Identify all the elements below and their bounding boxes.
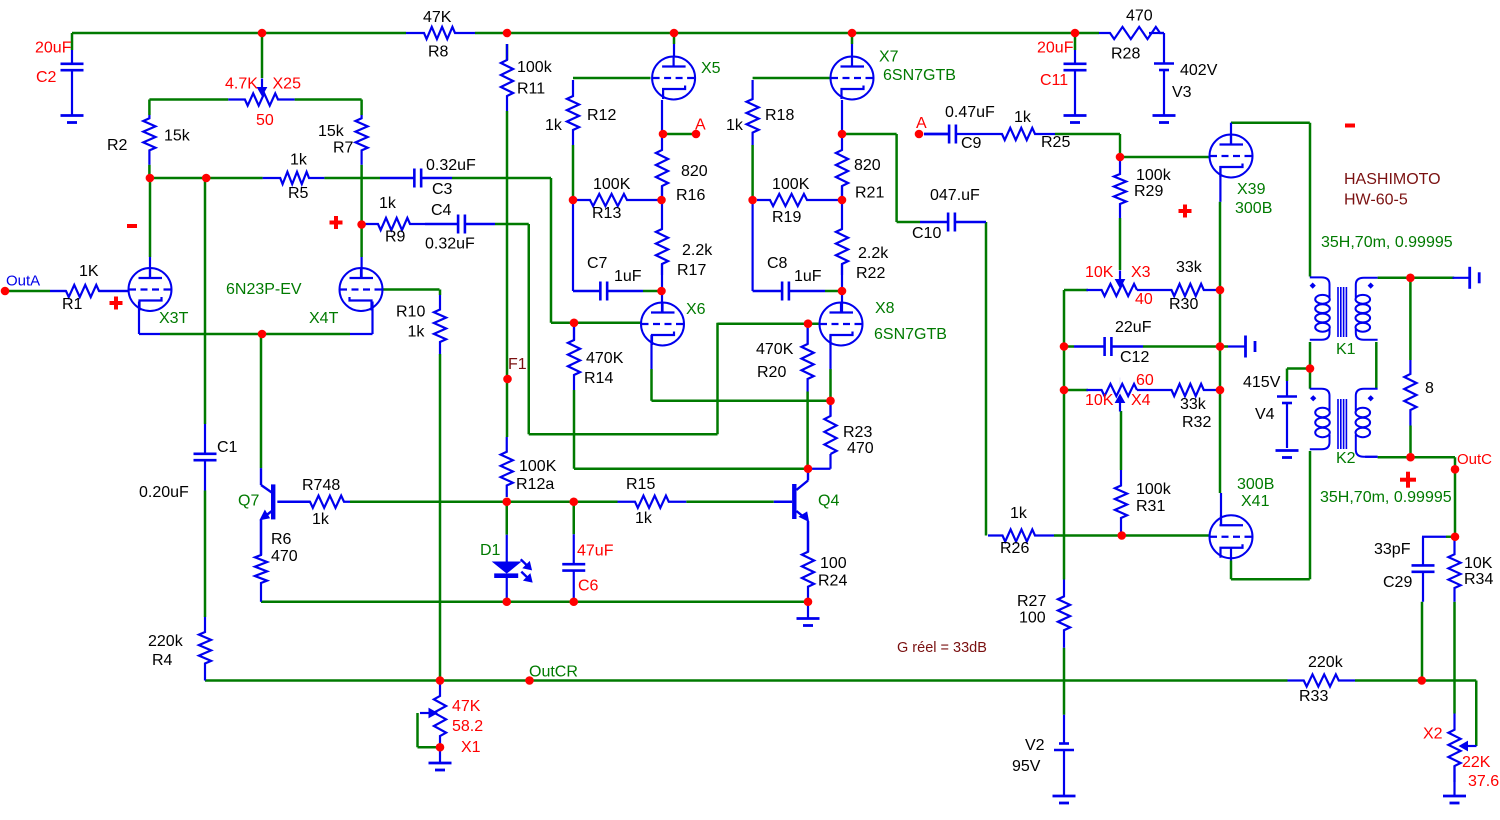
svg-text:2.2k: 2.2k <box>858 245 889 262</box>
svg-text:50: 50 <box>256 112 274 129</box>
svg-text:R27: R27 <box>1017 593 1046 610</box>
svg-text:V3: V3 <box>1172 84 1192 101</box>
svg-text:X41: X41 <box>1241 493 1270 510</box>
svg-text:0.20uF: 0.20uF <box>139 484 189 501</box>
svg-text:47K: 47K <box>423 9 452 26</box>
svg-text:100k: 100k <box>1136 481 1172 498</box>
svg-text:1k: 1k <box>408 324 426 341</box>
svg-text:C2: C2 <box>36 69 57 86</box>
svg-text:6SN7GTB: 6SN7GTB <box>874 326 947 343</box>
svg-text:R7: R7 <box>333 140 354 157</box>
svg-text:47K: 47K <box>452 698 481 715</box>
svg-text:C3: C3 <box>432 181 453 198</box>
svg-text:C6: C6 <box>578 578 599 595</box>
svg-text:X3: X3 <box>1131 264 1151 281</box>
svg-text:X5: X5 <box>701 60 721 77</box>
svg-text:R22: R22 <box>856 265 885 282</box>
svg-text:95V: 95V <box>1012 758 1041 775</box>
svg-text:8: 8 <box>1425 380 1434 397</box>
svg-text:R9: R9 <box>385 229 406 246</box>
svg-text:V4: V4 <box>1255 406 1275 423</box>
svg-text:R17: R17 <box>677 262 706 279</box>
svg-text:C10: C10 <box>912 225 941 242</box>
svg-text:37.6: 37.6 <box>1468 773 1499 790</box>
svg-text:Q7: Q7 <box>238 493 259 510</box>
svg-text:6SN7GTB: 6SN7GTB <box>883 67 956 84</box>
svg-text:R2: R2 <box>107 137 128 154</box>
svg-text:1k: 1k <box>379 195 397 212</box>
svg-text:6N23P-EV: 6N23P-EV <box>226 281 302 298</box>
svg-text:R13: R13 <box>592 205 621 222</box>
svg-text:33k: 33k <box>1180 396 1207 413</box>
svg-text:R10: R10 <box>396 304 425 321</box>
svg-text:Q4: Q4 <box>818 493 839 510</box>
svg-text:R16: R16 <box>676 187 705 204</box>
svg-text:F1: F1 <box>508 356 527 373</box>
svg-text:15k: 15k <box>164 128 191 145</box>
svg-text:OutCR: OutCR <box>529 663 578 680</box>
svg-text:X1: X1 <box>461 739 481 756</box>
svg-text:10K: 10K <box>1464 555 1493 572</box>
svg-text:R8: R8 <box>428 44 449 61</box>
svg-text:300B: 300B <box>1235 200 1272 217</box>
svg-text:R15: R15 <box>626 476 655 493</box>
svg-text:C11: C11 <box>1040 72 1068 89</box>
svg-text:100K: 100K <box>772 176 810 193</box>
svg-text:22uF: 22uF <box>1115 319 1152 336</box>
svg-text:R24: R24 <box>818 573 847 590</box>
svg-text:R748: R748 <box>302 477 340 494</box>
svg-text:A: A <box>916 115 927 132</box>
svg-text:R1: R1 <box>62 296 83 313</box>
svg-text:C1: C1 <box>217 439 238 456</box>
svg-text:R30: R30 <box>1169 296 1198 313</box>
svg-text:470K: 470K <box>756 341 794 358</box>
svg-text:R18: R18 <box>765 107 794 124</box>
svg-text:1uF: 1uF <box>614 268 642 285</box>
svg-text:X25: X25 <box>273 76 302 93</box>
svg-text:R12a: R12a <box>516 476 554 493</box>
svg-text:1k: 1k <box>1014 109 1032 126</box>
svg-text:220k: 220k <box>1308 654 1344 671</box>
svg-text:58.2: 58.2 <box>452 718 483 735</box>
svg-text:R21: R21 <box>855 185 884 202</box>
svg-text:415V: 415V <box>1243 374 1281 391</box>
svg-text:D1: D1 <box>480 542 501 559</box>
svg-text:820: 820 <box>681 163 708 180</box>
svg-text:1k: 1k <box>1010 505 1028 522</box>
svg-text:C8: C8 <box>767 255 788 272</box>
svg-text:33pF: 33pF <box>1374 541 1411 558</box>
svg-text:100k: 100k <box>517 59 553 76</box>
svg-text:1k: 1k <box>635 510 653 527</box>
svg-text:100K: 100K <box>519 458 557 475</box>
svg-text:402V: 402V <box>1180 62 1218 79</box>
svg-text:100k: 100k <box>1136 167 1172 184</box>
svg-text:X4T: X4T <box>309 310 339 327</box>
svg-text:100: 100 <box>820 555 847 572</box>
svg-text:X3T: X3T <box>159 310 189 327</box>
svg-text:X4: X4 <box>1131 392 1151 409</box>
svg-text:10K: 10K <box>1085 264 1114 281</box>
svg-text:K2: K2 <box>1336 450 1356 467</box>
svg-text:R11: R11 <box>517 81 545 98</box>
svg-text:1k: 1k <box>726 117 744 134</box>
svg-text:C9: C9 <box>961 135 982 152</box>
svg-text:C7: C7 <box>587 255 608 272</box>
svg-text:X7: X7 <box>879 49 899 66</box>
svg-text:R25: R25 <box>1041 134 1070 151</box>
svg-text:R14: R14 <box>584 370 613 387</box>
svg-text:22K: 22K <box>1462 754 1491 771</box>
svg-text:HASHIMOTO: HASHIMOTO <box>1344 171 1441 188</box>
svg-text:OutC: OutC <box>1457 451 1492 468</box>
svg-text:OutA: OutA <box>6 273 40 290</box>
svg-text:1K: 1K <box>79 263 99 280</box>
svg-text:0.47uF: 0.47uF <box>945 104 995 121</box>
svg-text:1uF: 1uF <box>794 268 822 285</box>
svg-text:R19: R19 <box>772 209 801 226</box>
svg-text:R20: R20 <box>757 364 786 381</box>
svg-text:R4: R4 <box>152 652 173 669</box>
svg-text:X8: X8 <box>875 300 895 317</box>
svg-text:100: 100 <box>1019 610 1046 627</box>
svg-text:R28: R28 <box>1111 46 1140 63</box>
svg-text:470: 470 <box>1126 8 1153 25</box>
svg-text:300B: 300B <box>1237 476 1274 493</box>
svg-text:47uF: 47uF <box>577 543 614 560</box>
svg-text:470: 470 <box>271 548 298 565</box>
svg-text:R31: R31 <box>1136 498 1165 515</box>
svg-text:R6: R6 <box>271 531 292 548</box>
svg-text:A: A <box>695 117 706 134</box>
svg-text:1k: 1k <box>545 117 563 134</box>
svg-text:R33: R33 <box>1299 688 1328 705</box>
svg-text:R26: R26 <box>1000 540 1029 557</box>
svg-text:2.2k: 2.2k <box>682 242 713 259</box>
svg-text:100K: 100K <box>593 176 631 193</box>
svg-text:C4: C4 <box>431 202 452 219</box>
svg-text:0.32uF: 0.32uF <box>426 157 476 174</box>
svg-text:V2: V2 <box>1025 737 1045 754</box>
svg-text:35H,70m, 0.99995: 35H,70m, 0.99995 <box>1320 489 1452 506</box>
svg-text:R12: R12 <box>587 107 616 124</box>
svg-text:470: 470 <box>847 440 874 457</box>
svg-text:60: 60 <box>1136 372 1154 389</box>
svg-text:470K: 470K <box>586 350 624 367</box>
svg-text:0.32uF: 0.32uF <box>425 236 475 253</box>
svg-text:15k: 15k <box>318 123 345 140</box>
svg-text:HW-60-5: HW-60-5 <box>1344 192 1408 209</box>
svg-text:1k: 1k <box>290 152 308 169</box>
svg-text:20uF: 20uF <box>1037 40 1074 57</box>
svg-text:047.uF: 047.uF <box>930 187 980 204</box>
svg-text:K1: K1 <box>1336 341 1356 358</box>
svg-text:G réel = 33dB: G réel = 33dB <box>897 640 987 656</box>
svg-text:R23: R23 <box>843 424 872 441</box>
svg-text:4.7K: 4.7K <box>225 76 258 93</box>
svg-text:C29: C29 <box>1383 574 1412 591</box>
svg-text:R32: R32 <box>1182 414 1211 431</box>
svg-text:33k: 33k <box>1176 259 1203 276</box>
svg-text:1k: 1k <box>312 511 330 528</box>
svg-text:40: 40 <box>1135 291 1153 308</box>
svg-text:X6: X6 <box>686 301 706 318</box>
svg-text:35H,70m, 0.99995: 35H,70m, 0.99995 <box>1321 234 1453 251</box>
svg-text:R29: R29 <box>1134 183 1163 200</box>
svg-text:10K: 10K <box>1085 392 1114 409</box>
svg-text:R5: R5 <box>288 185 309 202</box>
svg-text:X2: X2 <box>1423 726 1443 743</box>
svg-text:820: 820 <box>854 157 881 174</box>
svg-text:X39: X39 <box>1237 181 1266 198</box>
svg-text:R34: R34 <box>1464 571 1493 588</box>
svg-text:20uF: 20uF <box>35 40 72 57</box>
svg-text:220k: 220k <box>148 633 184 650</box>
svg-text:C12: C12 <box>1120 349 1149 366</box>
